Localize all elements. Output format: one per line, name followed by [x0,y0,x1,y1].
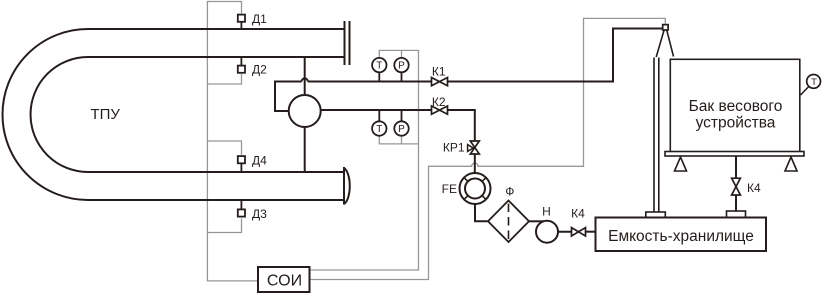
svg-text:Т: Т [811,77,817,88]
svg-text:Н: Н [542,204,551,218]
svg-text:ТПУ: ТПУ [90,106,120,123]
svg-text:К1: К1 [432,65,446,79]
svg-text:КР1: КР1 [443,141,465,155]
svg-text:Емкость-хранилище: Емкость-хранилище [608,228,754,245]
svg-text:Ф: Ф [505,184,514,198]
svg-text:Д2: Д2 [252,63,267,77]
svg-text:Р: Р [398,124,405,135]
svg-text:устройства: устройства [696,115,776,132]
svg-text:СОИ: СОИ [267,272,302,289]
svg-text:К4: К4 [747,181,761,195]
svg-text:К2: К2 [432,95,446,109]
svg-text:Р: Р [398,61,405,72]
svg-text:Д3: Д3 [252,207,267,221]
svg-text:Т: Т [376,124,382,135]
svg-text:К4: К4 [571,206,585,220]
svg-text:Д1: Д1 [252,12,267,26]
svg-text:Т: Т [376,61,382,72]
svg-text:FE: FE [442,182,457,196]
svg-text:Бак весового: Бак весового [689,98,783,115]
svg-text:Д4: Д4 [252,153,267,167]
